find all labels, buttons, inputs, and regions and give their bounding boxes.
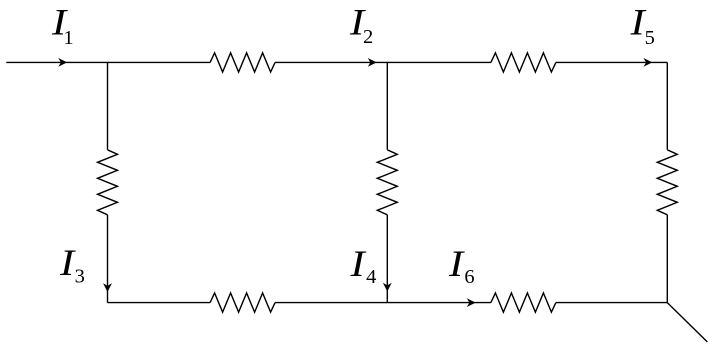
svg-text:I: I (349, 242, 366, 284)
resistor R1 (top left horizontal) (210, 53, 275, 72)
wire diagonal from junction F (667, 303, 707, 342)
svg-text:5: 5 (645, 27, 655, 49)
resistor R3 (left vertical) (98, 150, 118, 215)
resistor R2 (top right horizontal) (491, 53, 556, 72)
svg-text:2: 2 (363, 26, 373, 48)
svg-text:I: I (448, 242, 465, 284)
svg-text:6: 6 (464, 266, 474, 288)
wire node A-resistor to node B (275, 61, 491, 63)
wire middle vertical to node E (386, 215, 388, 303)
wire resistor R6 to resistor R7 (275, 302, 491, 304)
wire resistor R2 to corner C (556, 61, 667, 63)
wire node A down (107, 62, 109, 149)
resistor R5 (right vertical) (657, 150, 677, 215)
arrowhead current I2 (368, 58, 377, 67)
arrowhead current I1 (58, 58, 67, 67)
wire resistor R7 to junction F (556, 302, 667, 304)
wire left vertical to corner D (107, 215, 109, 303)
resistor R6 (bottom left horizontal) (210, 293, 275, 312)
arrowhead current I3 (103, 283, 112, 292)
wire node B down (386, 62, 388, 149)
arrowhead current I5 (644, 58, 653, 67)
svg-text:I: I (59, 242, 76, 284)
resistor R7 (bottom right horizontal) (491, 293, 556, 312)
resistor R4 (middle vertical) (377, 150, 397, 215)
svg-text:3: 3 (75, 266, 85, 288)
svg-text:1: 1 (63, 27, 73, 49)
wire corner D to resistor R6 (108, 302, 211, 304)
wire input to node A (6, 61, 210, 63)
wire right vertical to junction F (666, 215, 668, 303)
wire corner C down (666, 62, 668, 149)
arrowhead current I4 (383, 283, 392, 292)
arrowhead current I6 (467, 298, 476, 307)
svg-text:4: 4 (366, 266, 376, 288)
